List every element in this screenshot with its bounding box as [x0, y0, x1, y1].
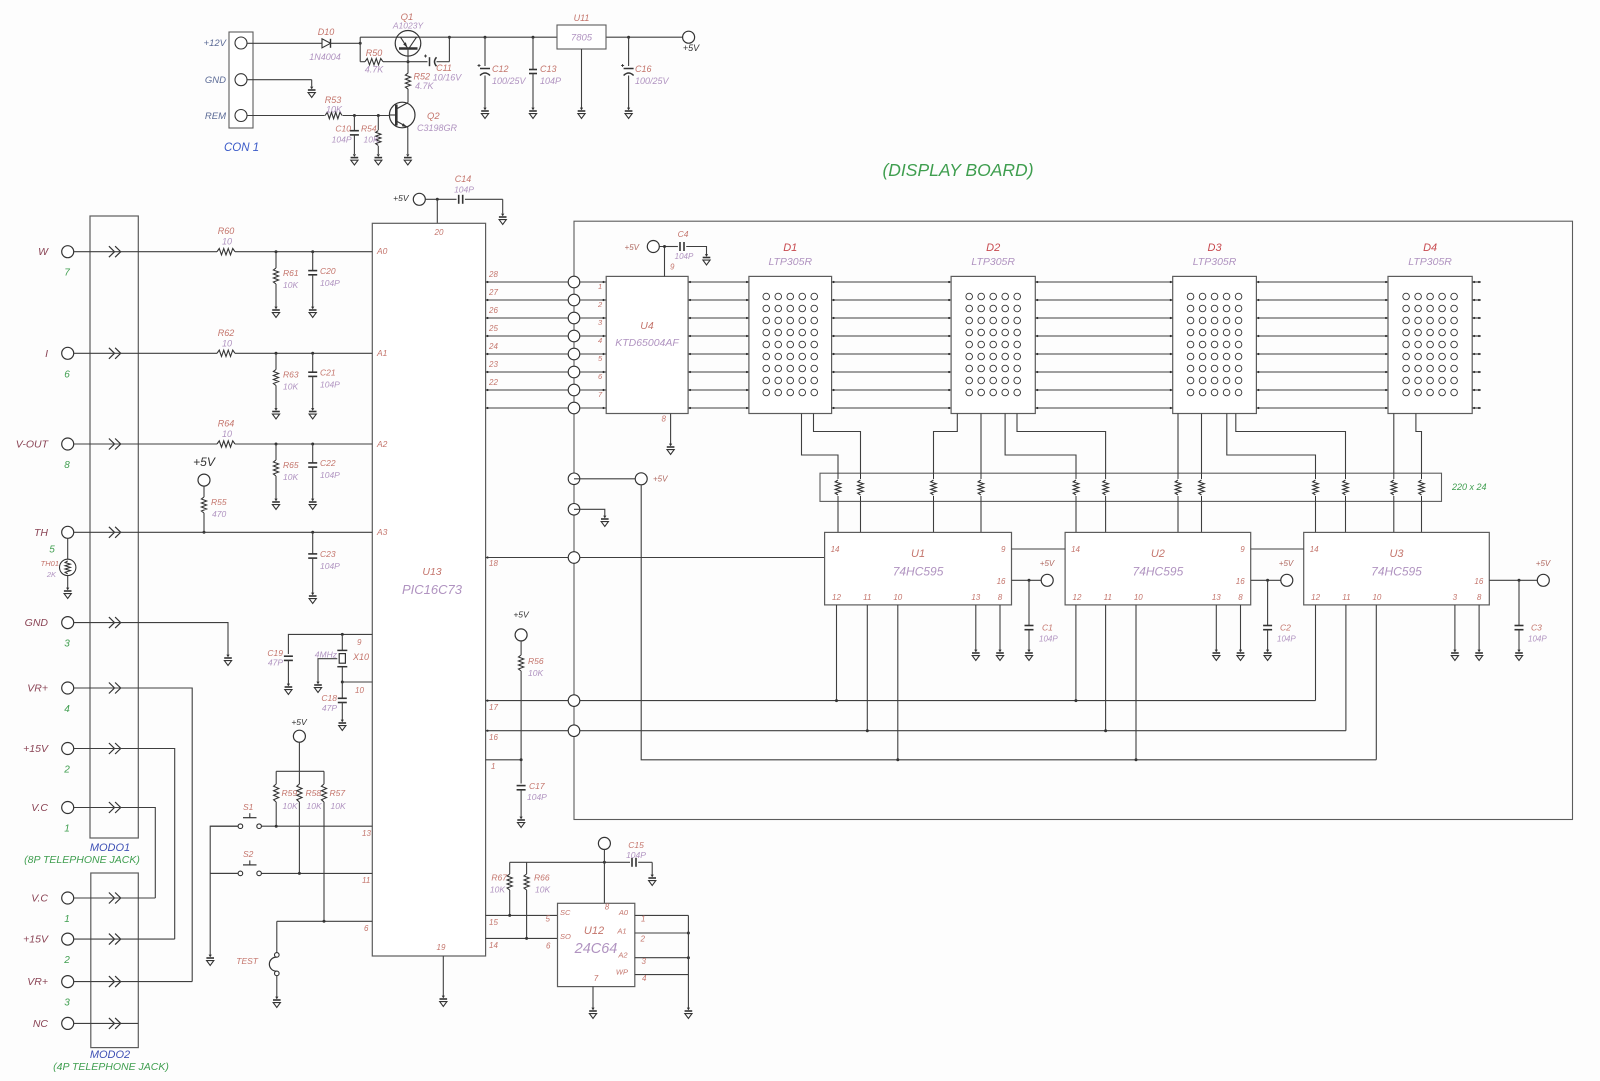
network resistor x1345.5	[1345, 473, 1347, 479]
svg-text:16: 16	[1236, 577, 1245, 586]
svg-text:2: 2	[597, 300, 603, 309]
wire row y318 segment 4	[1256, 317, 1388, 319]
wire PIC pin 15 to U12	[486, 914, 558, 916]
wire V-OUT to R64	[74, 443, 217, 445]
svg-text:10K: 10K	[535, 885, 550, 895]
ground C2	[1264, 653, 1272, 660]
svg-text:15: 15	[489, 918, 498, 927]
wire C11 up to rail	[437, 61, 450, 63]
svg-text:17: 17	[489, 703, 498, 712]
svg-text:+5V: +5V	[393, 193, 410, 203]
wire D3 pin2 straight	[1201, 414, 1203, 474]
network resistor x838	[837, 473, 839, 479]
IC U2 74HC595 body	[1065, 532, 1251, 605]
terminal +5V U4	[647, 241, 659, 253]
svg-text:V-OUT: V-OUT	[16, 439, 50, 451]
svg-text:28: 28	[488, 270, 498, 279]
svg-text:104P: 104P	[1528, 635, 1547, 644]
wire network to U2 top x1076	[1075, 501, 1077, 532]
svg-text:D10: D10	[318, 27, 335, 37]
svg-text:TH01: TH01	[41, 559, 59, 568]
capacitor C16	[628, 37, 630, 66]
wire R62 to PIC A1	[235, 352, 372, 354]
svg-text:20: 20	[434, 228, 444, 237]
CON1 pin 3 circle	[235, 110, 247, 122]
wire row y282 segment 4	[1256, 281, 1388, 283]
ground TH01	[64, 591, 72, 598]
ground crystal case	[314, 685, 322, 692]
wire +15V upper to lower	[74, 749, 175, 940]
ground U4 pin8	[667, 447, 675, 454]
terminal +5V main	[683, 31, 695, 43]
regulator U11	[557, 25, 606, 49]
wire network to U2 top x1178	[1177, 501, 1179, 532]
wire row y408 segment 5	[1472, 407, 1481, 409]
svg-text:V.C: V.C	[31, 802, 48, 814]
node circle row y408	[568, 402, 580, 414]
wire PIC pin 19 ground	[442, 956, 444, 996]
svg-text:100/25V: 100/25V	[635, 76, 670, 86]
ground R54	[375, 158, 383, 165]
terminal GND	[62, 617, 74, 629]
dot matrix D1	[763, 293, 818, 396]
svg-text:3: 3	[64, 639, 70, 650]
svg-text:U4: U4	[640, 320, 654, 332]
wire PIC pin 26 row 3	[486, 317, 574, 319]
connector CON1 body	[229, 32, 253, 128]
wire network to U3 top x1421.5	[1421, 501, 1423, 532]
terminal V.C	[62, 892, 74, 904]
node circle row y390	[568, 384, 580, 396]
svg-text:10K: 10K	[331, 801, 346, 811]
svg-text:10K: 10K	[283, 801, 298, 811]
svg-text:+5V: +5V	[513, 610, 530, 620]
svg-text:3: 3	[64, 998, 70, 1009]
wire U3 pin 8 ground	[1478, 605, 1480, 650]
svg-text:+5V: +5V	[653, 475, 668, 484]
capacitor C1	[1028, 580, 1030, 625]
svg-text:6: 6	[64, 369, 70, 380]
svg-text:X10: X10	[352, 652, 369, 662]
svg-text:47P: 47P	[268, 658, 283, 668]
connector MOD02 body	[91, 873, 139, 1048]
svg-text:REM: REM	[205, 111, 226, 122]
svg-text:10K: 10K	[528, 668, 543, 678]
ground U12 right	[685, 1011, 693, 1018]
wire ground tap	[574, 509, 605, 516]
svg-text:R59: R59	[282, 788, 298, 798]
node circle row y300	[568, 294, 580, 306]
ground pin19	[440, 999, 448, 1006]
svg-text:8: 8	[605, 903, 610, 912]
ground C19	[285, 687, 293, 694]
svg-text:1: 1	[598, 282, 602, 291]
ground C4	[703, 258, 711, 265]
svg-text:TEST: TEST	[236, 956, 259, 966]
ground C17	[517, 820, 525, 827]
wire U4 pin8 ground	[670, 414, 672, 445]
wire D1 pinB staircase	[814, 414, 861, 474]
svg-text:W: W	[38, 246, 49, 258]
svg-text:+12V: +12V	[204, 38, 228, 49]
svg-text:11: 11	[863, 593, 871, 602]
wire pin9 to C19	[288, 634, 372, 654]
node circle y700.6	[568, 695, 580, 707]
svg-text:+5V: +5V	[1040, 559, 1055, 568]
wire network to U3 top x1345.5	[1345, 501, 1347, 532]
ground C18	[339, 723, 347, 730]
crystal case ground wire	[318, 659, 337, 682]
svg-text:1: 1	[641, 915, 645, 924]
svg-text:+15V: +15V	[23, 934, 49, 946]
resistor R62	[217, 350, 235, 356]
connector MOD01 body	[90, 216, 138, 838]
wire U1 pin16 +5V	[1012, 579, 1042, 581]
svg-text:24C64: 24C64	[574, 941, 618, 957]
chevron VR+	[109, 976, 121, 987]
dot matrix D2	[966, 293, 1021, 396]
wire V.C lower	[74, 897, 156, 899]
svg-text:23: 23	[488, 360, 498, 369]
wire I to R62	[74, 352, 217, 354]
svg-text:4: 4	[64, 704, 70, 715]
resistor R66	[526, 862, 528, 874]
svg-text:+5V: +5V	[625, 243, 640, 252]
svg-text:A1023Y: A1023Y	[392, 21, 425, 31]
svg-text:10: 10	[222, 339, 232, 349]
network resistor x933.5	[933, 473, 935, 479]
wire row y372 segment 4	[1256, 371, 1388, 373]
svg-text:104P: 104P	[320, 561, 340, 571]
terminal +5V U1	[1041, 574, 1053, 586]
svg-text:100/25V: 100/25V	[492, 76, 527, 86]
wire row y372 segment 1	[688, 371, 749, 373]
svg-text:D1: D1	[783, 242, 797, 254]
svg-text:4: 4	[642, 974, 647, 983]
wire NC stub	[74, 1022, 139, 1024]
chevron +15V	[109, 743, 121, 754]
wire R50 line	[360, 61, 365, 63]
svg-text:C14: C14	[455, 174, 472, 184]
svg-text:R67: R67	[491, 873, 507, 883]
wire TH to PIC A3	[74, 531, 373, 533]
wire Q2 emitter to ground	[407, 127, 409, 154]
node circle y557.5	[568, 552, 580, 564]
svg-text:KTD65004AF: KTD65004AF	[615, 337, 679, 349]
chevron V-OUT	[109, 439, 121, 450]
svg-text:A0: A0	[376, 246, 388, 256]
wire R50 line to C11	[408, 61, 428, 63]
svg-text:11: 11	[1104, 593, 1112, 602]
wire row y390 segment 5	[1472, 389, 1481, 391]
svg-text:1N4004: 1N4004	[309, 52, 341, 62]
terminal +5V C14	[413, 193, 425, 205]
chevron V.C	[109, 893, 121, 904]
jumper TEST	[276, 921, 278, 952]
wire U12 pin7 ground	[592, 987, 594, 1008]
wire row y336 segment 2	[832, 335, 952, 337]
capacitor C22	[312, 444, 314, 463]
wire main rail	[421, 36, 557, 38]
svg-text:GND: GND	[205, 75, 226, 86]
svg-text:470: 470	[212, 509, 226, 519]
ground tap	[601, 519, 609, 526]
wire U1 pin 8 ground	[999, 605, 1001, 650]
wire row y318 segment 1	[688, 317, 749, 319]
wire pin10	[342, 681, 372, 683]
svg-text:6: 6	[364, 924, 369, 933]
wire U2 pin12 riser	[1075, 605, 1077, 701]
wire D2 pin3 staircase	[1005, 414, 1076, 474]
IC U4 KTD65004AF body	[606, 276, 688, 413]
capacitor C23	[312, 532, 314, 554]
svg-text:R61: R61	[283, 268, 299, 278]
svg-text:C15: C15	[628, 840, 644, 850]
wire PIC pin 16 bus	[486, 730, 1346, 732]
crystal X10	[341, 634, 343, 650]
wire row y408 segment 1	[688, 407, 749, 409]
network resistor x981	[980, 473, 982, 479]
svg-text:C17: C17	[529, 781, 545, 791]
svg-text:WP: WP	[616, 967, 628, 976]
network resistor x1076	[1075, 473, 1077, 479]
ground MOD01 GND	[224, 658, 232, 665]
wire PIC pin 6 TEST line	[277, 920, 373, 922]
wire U2 pin16 +5V	[1251, 579, 1281, 581]
wire R53 to Q2 base	[343, 115, 390, 117]
wire U2 pin 13 ground	[1215, 605, 1217, 650]
svg-text:11: 11	[1342, 593, 1350, 602]
svg-text:1: 1	[64, 824, 70, 835]
network resistor x1105.6	[1105, 473, 1107, 479]
wire PIC pin 14 to U12	[486, 937, 558, 939]
wire V.C upper to lower	[74, 808, 156, 899]
wire R64 to PIC A2	[235, 443, 372, 445]
svg-text:104P: 104P	[454, 185, 474, 195]
wire row y372 segment 2	[832, 371, 952, 373]
svg-text:A2: A2	[376, 439, 388, 449]
wire D4 pin1 straight	[1393, 414, 1395, 474]
switch S1	[238, 824, 243, 829]
wire row y336 segment 4	[1256, 335, 1388, 337]
wire row y300 segment 4	[1256, 299, 1388, 301]
wire D2 pin2 straight	[980, 414, 982, 474]
svg-text:C2: C2	[1280, 623, 1291, 633]
svg-text:VR+: VR+	[27, 683, 48, 695]
wire PIC pin 18 to U1 pin14	[486, 557, 825, 559]
terminal VR+	[62, 976, 74, 988]
wire row y390 segment 2	[832, 389, 952, 391]
terminal +5V U2	[1281, 574, 1293, 586]
resistor R54	[377, 116, 379, 131]
svg-text:13: 13	[362, 829, 371, 838]
chevron I	[109, 348, 121, 359]
capacitor C2	[1267, 580, 1269, 625]
wire switches common	[210, 826, 238, 955]
svg-text:16: 16	[489, 733, 498, 742]
network resistor x1421.5	[1421, 473, 1423, 479]
terminal V-OUT	[62, 438, 74, 450]
svg-text:A3: A3	[376, 527, 388, 537]
network resistor x1201.5	[1201, 473, 1203, 479]
terminal +5V tap	[635, 473, 647, 485]
terminal VR+	[62, 682, 74, 694]
svg-text:10: 10	[355, 686, 364, 695]
svg-text:10K: 10K	[326, 105, 343, 115]
wire U4 left pin row 4	[579, 335, 606, 337]
wire U2 pin10 riser	[1135, 605, 1137, 760]
wire +5V to resistor tops	[298, 742, 300, 771]
svg-text:7805: 7805	[571, 33, 593, 44]
svg-text:4.7K: 4.7K	[365, 65, 385, 75]
wire row y354 segment 1	[688, 353, 749, 355]
ground TEST	[273, 1000, 281, 1007]
svg-text:11: 11	[362, 876, 370, 885]
wire U12 right vertical to ground	[687, 915, 689, 1008]
svg-text:S1: S1	[243, 802, 254, 812]
wire PIC pin 27 row 2	[486, 299, 574, 301]
wire R52 vertical	[407, 65, 409, 73]
resistor R53	[325, 112, 342, 118]
ground C15	[648, 878, 656, 885]
terminal +15V	[62, 743, 74, 755]
wire rail Q1 left	[360, 36, 396, 38]
svg-text:R66: R66	[534, 873, 550, 883]
svg-text:104P: 104P	[626, 850, 646, 860]
svg-text:4MHz: 4MHz	[315, 650, 338, 660]
capacitor C13	[532, 37, 534, 69]
svg-text:A2: A2	[617, 951, 628, 960]
svg-text:104P: 104P	[1277, 635, 1296, 644]
svg-text:U13: U13	[422, 566, 441, 578]
wire +5V to U12 pin8	[603, 849, 605, 903]
wire PIC pin 13 S1 line	[210, 825, 238, 827]
wire VR+ lower	[74, 981, 193, 983]
display D4 LTP305R body	[1388, 276, 1472, 413]
svg-text:LTP305R: LTP305R	[971, 256, 1015, 268]
ground R63	[272, 412, 280, 419]
ground C20	[309, 310, 317, 317]
svg-text:+5V: +5V	[291, 717, 308, 727]
svg-text:5: 5	[546, 915, 551, 924]
wire PIC pin 23 row 6	[486, 371, 574, 373]
IC U1 74HC595 body	[825, 532, 1012, 605]
wire pin20 drop	[436, 199, 438, 223]
resistor R67	[509, 862, 511, 874]
resistor R56	[520, 641, 522, 655]
svg-text:U3: U3	[1389, 548, 1404, 560]
wire U12 WP	[635, 974, 689, 976]
wire +15V lower	[74, 938, 175, 940]
svg-text:C12: C12	[492, 64, 509, 74]
wire D1 pinA staircase	[802, 414, 839, 474]
ground CON1	[308, 90, 316, 97]
wire row y318 segment 3	[1035, 317, 1172, 319]
wire U4 left pin row 2	[579, 299, 606, 301]
wire C14 to ground	[465, 198, 503, 200]
svg-text:8: 8	[64, 460, 70, 471]
svg-text:104P: 104P	[320, 380, 340, 390]
svg-text:8: 8	[998, 593, 1003, 602]
svg-text:CON 1: CON 1	[224, 142, 259, 154]
svg-text:C10: C10	[335, 124, 351, 134]
wire U11 ground pin	[581, 49, 583, 108]
chevron GND	[109, 617, 121, 628]
svg-text:10K: 10K	[490, 885, 505, 895]
wire U4 left pin row 1	[579, 281, 606, 283]
svg-text:220 x 24: 220 x 24	[1451, 482, 1487, 492]
svg-text:U2: U2	[1151, 548, 1165, 560]
svg-text:10: 10	[222, 429, 232, 439]
terminal TH	[62, 526, 74, 538]
resistor R52	[405, 73, 410, 89]
resistor R65	[275, 444, 277, 460]
svg-text:9: 9	[670, 263, 675, 272]
wire +5V to C14	[425, 198, 456, 200]
wire PIC pin 22 row 7	[486, 389, 574, 391]
wire U12 A0	[635, 914, 689, 916]
wire network to U3 top x1315.5	[1315, 501, 1317, 532]
network resistor x1315.5	[1315, 473, 1317, 479]
IC U13 PIC16C73 body	[372, 223, 485, 956]
CON1 pin 1 circle	[235, 37, 247, 49]
svg-text:C21: C21	[320, 368, 336, 378]
svg-text:104P: 104P	[320, 470, 340, 480]
svg-text:10K: 10K	[283, 472, 298, 482]
svg-text:(4P TELEPHONE JACK): (4P TELEPHONE JACK)	[53, 1061, 169, 1073]
svg-text:24: 24	[488, 342, 498, 351]
dot matrix D3	[1187, 293, 1242, 396]
ground C12	[481, 111, 489, 118]
wire box edge to +5V tap	[574, 478, 635, 480]
svg-text:10: 10	[1134, 593, 1143, 602]
wire U1 pin 13 ground	[975, 605, 977, 650]
svg-text:C18: C18	[321, 693, 337, 703]
svg-text:R57: R57	[330, 788, 346, 798]
wire U3 pin12 riser	[1315, 605, 1317, 701]
wire row y300 segment 1	[688, 299, 749, 301]
wire D3 pin4 staircase	[1236, 414, 1346, 474]
network resistor x860.5	[860, 473, 862, 479]
capacitor C18	[341, 682, 343, 698]
wire row y282 segment 3	[1035, 281, 1172, 283]
ground C22	[309, 502, 317, 509]
terminal V.C	[62, 802, 74, 814]
svg-text:A0: A0	[618, 908, 629, 917]
capacitor C19	[284, 656, 293, 660]
node circle y730.7	[568, 725, 580, 737]
wire row y354 segment 3	[1035, 353, 1172, 355]
wire GND pin	[247, 79, 312, 81]
svg-text:R50: R50	[366, 48, 383, 58]
wire PIC pin 1 to R56 node	[486, 759, 521, 761]
wire U4 left pin row 5	[579, 353, 606, 355]
svg-text:27: 27	[488, 288, 498, 297]
node circle row y372	[568, 366, 580, 378]
ground C16	[625, 111, 633, 118]
chevron TH	[109, 527, 121, 538]
svg-text:18: 18	[489, 559, 498, 568]
wire PIC pin 28 row 1	[486, 281, 574, 283]
node circle row y336	[568, 330, 580, 342]
terminal +5V U12	[598, 837, 610, 849]
wire row y300 segment 2	[832, 299, 952, 301]
svg-text:13: 13	[971, 593, 980, 602]
wire D2 pin1 staircase	[934, 414, 958, 474]
svg-text:4.7K: 4.7K	[415, 81, 435, 91]
svg-text:C3: C3	[1531, 623, 1542, 633]
wire U12 A1	[635, 932, 689, 934]
